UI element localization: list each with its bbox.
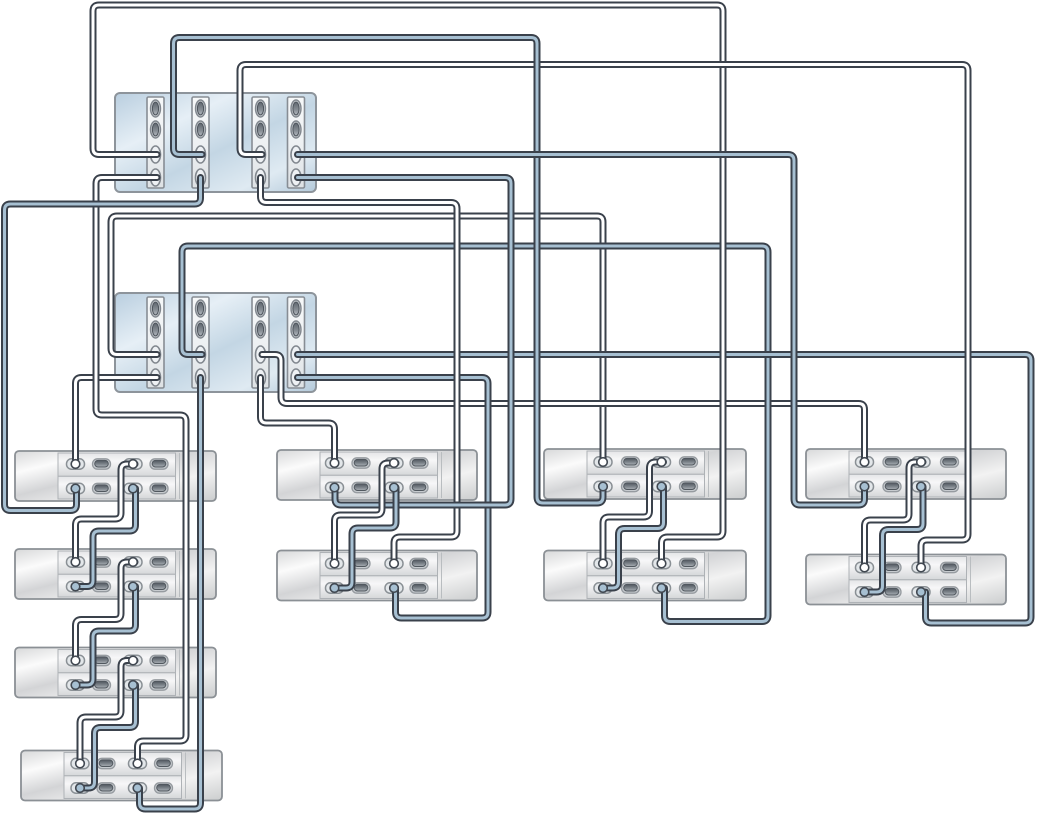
disk shelf C1S3 row2 ports xyxy=(67,680,169,690)
disk shelf C3B row2 ports xyxy=(594,583,698,593)
controller 2 controller chassis xyxy=(115,293,316,392)
disk shelf C3B IOM panel xyxy=(587,553,709,599)
controller 1 controller chassis xyxy=(115,93,316,192)
cable: controller1 HBA1 port3 to shelf C3B r1p3 (white) xyxy=(93,5,723,564)
connector at shelf C3B r2p1 xyxy=(599,584,608,593)
disk shelf C1S3 IOM panel xyxy=(58,650,180,696)
cable: controller2 HBA1 port3 to shelf C3A r1p1 (white) xyxy=(111,216,603,462)
connector at shelf C2A r1p3 xyxy=(390,459,399,468)
disk shelf C1S3 chassis xyxy=(15,648,216,698)
disk shelf C1S2 IOM panel xyxy=(58,551,180,597)
connector at shelf C1S3 r2p3 xyxy=(129,681,138,690)
chain cable: C2A r1p3 to C2B r1p1 (white) xyxy=(335,463,397,564)
connector at shelf C2A r2p1 xyxy=(330,483,339,492)
controller 2 HBA card 4 xyxy=(288,297,305,388)
connector at shelf C3A r2p1 xyxy=(599,482,608,491)
connector at shelf C4B r1p1 xyxy=(860,563,869,572)
connector at shelf C1S3 r1p3 xyxy=(129,656,138,665)
cable: controller1 HBA3 port3 to shelf C4B r1p3 (white) xyxy=(240,65,968,568)
chain cable: C3A r1p3 to C3B r1p1 (white) xyxy=(603,462,664,564)
cable: controller2 HBA1 port4 to shelf C1S1 r1p1 (white) xyxy=(76,378,158,465)
connector at shelf C4B r2p3 xyxy=(917,588,926,597)
connector at shelf C1S1 r1p1 xyxy=(71,460,80,469)
connector at shelf C3B r1p3 xyxy=(657,559,666,568)
disk shelf C4A chassis xyxy=(806,449,1006,499)
chain cable: C1S3 r1p3 to C1S4 r1p1 (white) xyxy=(80,661,135,764)
chain cable: C1S3 r2p3 to C1S4 r2p1 (blue) xyxy=(81,685,136,788)
chain cable: C1S1 r2p3 to C1S2 r2p1 (blue) xyxy=(77,489,136,587)
cable: controller2 HBA2 port4 to shelf C1S4 r2p3 (blue) xyxy=(140,378,201,810)
cable: controller2 HBA4 port4 to shelf C2B r2p3 (blue) xyxy=(298,378,489,619)
connector at shelf C2B r1p3 xyxy=(390,559,399,568)
cable: controller2 HBA2 port3 to shelf C3B r2p3 (blue) xyxy=(182,246,768,622)
disk shelf C1S2 chassis xyxy=(15,549,216,599)
disk shelf C4A row2 ports xyxy=(856,481,959,491)
cable: controller2 HBA3 port4 to shelf C2A r1p1 (white) xyxy=(261,378,335,464)
disk shelf C2B chassis xyxy=(277,551,477,601)
chain cable: C4A r1p3 to C4B r1p1 (white) xyxy=(865,462,924,568)
disk shelf C4B IOM panel xyxy=(849,557,971,603)
connector at shelf C1S3 r2p1 xyxy=(71,681,80,690)
connector at shelf C1S1 r2p3 xyxy=(129,484,138,493)
controller 1 HBA card 1 xyxy=(147,97,164,188)
chain cable: C3A r2p3 to C3B r2p1 (blue) xyxy=(605,487,664,589)
disk shelf C2B IOM panel xyxy=(320,553,442,599)
disk shelf C1S2 row2 ports xyxy=(67,581,169,591)
connector at shelf C2B r2p1 xyxy=(330,584,339,593)
cable: controller2 HBA3 port3 to shelf C4A r1p1 (white) xyxy=(262,355,865,463)
disk shelf C2A row2 ports xyxy=(326,482,429,492)
cable: controller1 HBA4 port4 to shelf C2A r2p1 (blue) xyxy=(298,178,512,506)
disk shelf C1S1 IOM panel xyxy=(58,453,180,499)
disk shelf C1S4 IOM panel xyxy=(64,753,186,799)
disk shelf C4B chassis xyxy=(806,555,1006,605)
disk shelf C3A IOM panel xyxy=(587,451,709,497)
connector at shelf C3B r1p1 xyxy=(599,559,608,568)
disk shelf C4A IOM panel xyxy=(849,451,971,497)
cable: controller1 HBA3 port4 to shelf C2B r1p3 (white) xyxy=(261,178,458,564)
cable: controller2 HBA4 port3 to shelf C4B r2p3 (blue) xyxy=(298,355,1032,624)
disk shelf C1S4 row1 ports xyxy=(71,758,173,768)
disk shelf C1S1 row1 ports xyxy=(67,459,169,469)
connector at shelf C4A r2p1 xyxy=(860,482,869,491)
connector at shelf C2A r1p1 xyxy=(330,459,339,468)
chain cable: C1S2 r1p3 to C1S3 r1p1 (white) xyxy=(76,562,136,661)
disk shelf C2B row1 ports xyxy=(326,558,429,568)
chain cable: C1S1 r1p3 to C1S2 r1p1 (white) xyxy=(76,464,136,562)
connector at shelf C1S1 r2p1 xyxy=(71,484,80,493)
connector at shelf C3A r1p3 xyxy=(657,458,666,467)
disk shelf C1S4 row2 ports xyxy=(71,783,173,793)
disk shelf C4B row1 ports xyxy=(856,562,959,572)
cable: controller1 HBA4 port3 to shelf C4A r2p1 (blue) xyxy=(298,155,865,506)
controller 1 HBA card 4 xyxy=(288,97,305,188)
connector at shelf C1S4 r2p3 xyxy=(133,784,142,793)
disk shelf C2A chassis xyxy=(277,450,477,500)
controller 2 HBA card 2 xyxy=(192,297,209,388)
disk shelf C3A row2 ports xyxy=(594,481,698,491)
connector at shelf C1S4 r1p1 xyxy=(76,759,85,768)
connector at shelf C1S2 r1p1 xyxy=(71,558,80,567)
connector at shelf C1S4 r2p1 xyxy=(76,784,85,793)
disk shelf C1S3 row1 ports xyxy=(67,655,169,665)
connector at shelf C2B r1p1 xyxy=(330,559,339,568)
disk shelf C2A IOM panel xyxy=(320,452,442,498)
chain cable: C1S2 r2p3 to C1S3 r2p1 (blue) xyxy=(77,587,136,686)
chain cable: C2A r2p3 to C2B r2p1 (blue) xyxy=(336,488,396,589)
connector at shelf C4A r1p1 xyxy=(860,458,869,467)
connector at shelf C1S2 r2p3 xyxy=(129,582,138,591)
disk shelf C1S4 chassis xyxy=(21,751,222,801)
cable: controller1 HBA1 port4 to shelf C1S4 r1p3 (white) xyxy=(96,178,186,764)
disk shelf C2B row2 ports xyxy=(326,583,429,593)
connector at shelf C1S4 r1p3 xyxy=(133,759,142,768)
disk shelf C2A row1 ports xyxy=(326,458,429,468)
connector at shelf C1S1 r1p3 xyxy=(129,460,138,469)
connector at shelf C1S2 r2p1 xyxy=(71,582,80,591)
connector at shelf C3A r1p1 xyxy=(599,458,608,467)
connector at shelf C4B r2p1 xyxy=(860,588,869,597)
disk shelf C3A chassis xyxy=(544,449,746,499)
cable: controller1 HBA2 port3 to shelf C3A r2p1 (blue) xyxy=(174,38,604,504)
disk shelf C3B chassis xyxy=(544,551,746,601)
connector at shelf C4A r1p3 xyxy=(917,458,926,467)
controller 1 HBA card 3 xyxy=(252,97,269,188)
chain cable: C4A r2p3 to C4B r2p1 (blue) xyxy=(866,487,923,593)
connector at shelf C4B r1p3 xyxy=(917,563,926,572)
controller 1 HBA card 2 xyxy=(192,97,209,188)
cable: controller1 HBA2 port4 to shelf C1S1 r2p1 (blue) xyxy=(5,178,201,511)
disk shelf C1S1 row2 ports xyxy=(67,483,169,493)
connector at shelf C4A r2p3 xyxy=(917,482,926,491)
disk shelf C3A row1 ports xyxy=(594,457,698,467)
connector at shelf C3B r2p3 xyxy=(657,584,666,593)
disk shelf C3B row1 ports xyxy=(594,558,698,568)
disk shelf C4A row1 ports xyxy=(856,457,959,467)
connector at shelf C2B r2p3 xyxy=(390,584,399,593)
connector at shelf C1S2 r1p3 xyxy=(129,558,138,567)
controller 2 HBA card 3 xyxy=(252,297,269,388)
connector at shelf C2A r2p3 xyxy=(390,483,399,492)
connector at shelf C1S3 r1p1 xyxy=(71,656,80,665)
disk shelf C1S1 chassis xyxy=(15,451,216,501)
connector at shelf C3A r2p3 xyxy=(657,482,666,491)
controller 2 HBA card 1 xyxy=(147,297,164,388)
disk shelf C1S2 row1 ports xyxy=(67,557,169,567)
disk shelf C4B row2 ports xyxy=(856,587,959,597)
